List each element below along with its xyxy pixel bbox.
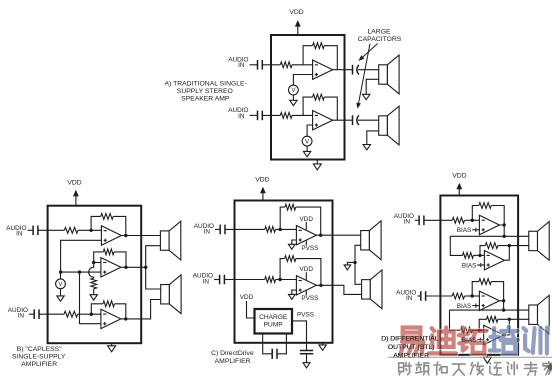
- svg-text:IN: IN: [406, 295, 413, 302]
- circuit C enclosure box: [235, 201, 333, 343]
- wire cap to R D ch2: [426, 295, 453, 297]
- capacitor input coupling B ch2: [34, 309, 39, 319]
- node output junction D ch1: [503, 223, 506, 226]
- resistor inverter feedback D ch2: [487, 316, 498, 322]
- svg-text:C) DirectDrive: C) DirectDrive: [211, 350, 254, 357]
- wire feedback to output D ch2: [491, 282, 503, 301]
- resistor feedback A ch2: [313, 94, 325, 100]
- wire bias rail horizontal B: [61, 271, 101, 273]
- speaker C ch2: [362, 270, 382, 309]
- watermark glyph pei: [490, 327, 518, 353]
- capacitor input coupling D ch1: [419, 216, 424, 226]
- resistor input A ch2: [280, 113, 292, 119]
- node output rail D ch2: [502, 308, 505, 311]
- wire PVSS rail tick C ch2: [305, 291, 307, 296]
- node output junction B ch2: [124, 317, 127, 320]
- wire audio-in lead B ch2: [29, 313, 34, 315]
- wire feedback loop C ch2: [280, 259, 285, 280]
- wire V to bias rail B: [60, 272, 62, 279]
- svg-text:AMPLIFIER: AMPLIFIER: [393, 353, 429, 360]
- svg-text:IN: IN: [203, 278, 210, 285]
- wire cap to R C ch2: [224, 279, 264, 281]
- arrow to large capacitor ch2: [356, 44, 370, 109]
- wire inverter output D ch1: [504, 246, 509, 261]
- node inverter input junction D ch1: [478, 254, 481, 257]
- svg-text:SUPPLY STEREO: SUPPLY STEREO: [177, 88, 233, 95]
- wire feedback loop A ch2: [303, 97, 313, 115]
- speaker B ch2: [161, 275, 181, 314]
- wire VDD rail tick C ch1: [305, 222, 307, 230]
- wire VDD to charge pump: [247, 301, 255, 318]
- svg-text:BIAS: BIAS: [462, 262, 477, 269]
- ground speaker return A ch1: [363, 94, 370, 99]
- wire speaker1 return C: [355, 245, 361, 262]
- op-amp B mid bias buffer: [101, 258, 121, 277]
- wire noninverting to ground C ch1: [292, 240, 297, 244]
- wire feedback loop D ch2: [472, 282, 479, 296]
- svg-text:VDD: VDD: [300, 216, 314, 223]
- ground circuit C box: [319, 343, 326, 351]
- circuit D enclosure box: [440, 196, 518, 355]
- node speaker return junction B: [144, 266, 147, 269]
- capacitor output large A ch2: [353, 115, 359, 125]
- svg-text:IN: IN: [16, 231, 23, 238]
- node inverter input junction D ch2: [478, 329, 481, 332]
- wire R to op-amp C ch2: [276, 279, 297, 281]
- wire noninverting input to V A ch1: [293, 75, 312, 86]
- node input junction C ch2: [278, 278, 281, 281]
- svg-text:CAPACITORS: CAPACITORS: [358, 36, 402, 43]
- capacitor input coupling A ch1: [258, 60, 263, 70]
- svg-text:BIAS: BIAS: [457, 303, 472, 310]
- svg-text:VDD: VDD: [300, 266, 314, 273]
- node output rail D ch1: [503, 235, 506, 238]
- wire R to op-amp D ch1: [465, 219, 480, 221]
- node bias rail tap B: [78, 270, 81, 273]
- arrow to large capacitor ch1: [358, 44, 377, 62]
- wire BIAS input D ch1: [472, 228, 479, 232]
- voltage source V A ch2: [302, 136, 312, 146]
- VDD supply arrow (circuit D): [456, 183, 462, 196]
- wire inverter feedback loop D ch1: [480, 246, 485, 256]
- op-amp B ch1: [101, 226, 121, 245]
- node input junction B ch2: [90, 313, 93, 316]
- wire cap to speaker A ch2: [358, 119, 379, 121]
- speaker B ch1: [160, 221, 180, 260]
- wire op-amp output B ch2: [121, 300, 161, 319]
- wire bias to bottom op-amp B: [80, 272, 101, 324]
- resistor input D ch1: [452, 217, 464, 223]
- VDD supply arrow (circuit B): [73, 190, 79, 206]
- resistor mid to ground B: [91, 278, 97, 289]
- wire audio-in lead A ch2: [250, 114, 258, 116]
- op-amp A ch1: [313, 60, 333, 79]
- wire BIAS input D ch2: [472, 303, 479, 307]
- svg-text:IN: IN: [18, 313, 25, 320]
- node input junction B ch1: [89, 229, 92, 232]
- wire cap to R C ch1: [225, 228, 265, 230]
- svg-text:CHARGE: CHARGE: [259, 314, 288, 321]
- wire op-amp output A ch1: [333, 69, 353, 71]
- resistor inverter input D ch1: [463, 253, 474, 259]
- wire to inverter stage D ch2: [450, 310, 461, 330]
- node mid output junction B: [124, 266, 127, 269]
- svg-text:BIAS: BIAS: [462, 337, 477, 344]
- wire feedback loop C ch1: [280, 207, 285, 229]
- wire feedback to output B ch1: [113, 216, 126, 235]
- resistor mid feedback B: [103, 249, 114, 255]
- resistor feedback B ch2: [103, 301, 115, 307]
- watermark glyph tuo: [459, 328, 486, 353]
- wire audio-in lead C ch2: [214, 279, 220, 281]
- svg-text:AMPLIFIER: AMPLIFIER: [21, 361, 57, 368]
- VDD supply arrow (circuit A): [295, 20, 301, 35]
- svg-text:BIAS: BIAS: [457, 227, 472, 234]
- capacitor input coupling A ch2: [258, 111, 263, 121]
- svg-text:PVSS: PVSS: [301, 295, 318, 302]
- wire cap to R A ch1: [262, 64, 280, 66]
- wire feedback to output C ch1: [296, 207, 321, 235]
- ground PVSS cap: [303, 363, 310, 368]
- node input junction C ch1: [279, 228, 282, 231]
- svg-text:IN: IN: [238, 113, 245, 120]
- capacitor input coupling C ch1: [220, 225, 225, 235]
- node inverter output junction D ch2: [508, 318, 511, 321]
- wire audio-in lead B ch1: [28, 229, 34, 231]
- svg-text:IN: IN: [404, 219, 411, 226]
- wire output rail D ch1: [450, 235, 529, 237]
- wire R to op-amp B ch2: [78, 313, 101, 315]
- wire mid feedback to output B: [114, 252, 126, 267]
- node output junction B ch1: [124, 234, 127, 237]
- speaker A ch1: [379, 55, 399, 94]
- node inverter output junction D ch1: [508, 244, 511, 247]
- watermark tagline glyph he: [434, 362, 447, 375]
- wire R to op-amp B ch1: [78, 229, 101, 231]
- wire audio-in lead D ch1: [415, 219, 419, 221]
- watermark tagline glyph tian: [452, 364, 465, 375]
- op-amp D ch1 inverter: [484, 251, 504, 270]
- svg-text:PVSS: PVSS: [301, 245, 318, 252]
- watermark tagline glyph xian: [470, 362, 483, 374]
- wire audio-in lead A ch1: [250, 64, 258, 66]
- wire audio-in lead D ch2: [417, 295, 420, 297]
- wire cap to speaker A ch1: [358, 69, 379, 71]
- wire R to op-amp C ch1: [276, 228, 297, 230]
- ground under V source A ch1: [290, 95, 297, 106]
- wire R to op-amp D ch2: [465, 295, 480, 297]
- svg-text:PUMP: PUMP: [264, 322, 284, 329]
- svg-text:VDD: VDD: [255, 176, 269, 183]
- resistor feedback C ch2: [285, 256, 296, 262]
- voltage source V B: [56, 279, 66, 289]
- resistor input B ch1: [64, 227, 78, 233]
- watermark tagline glyph she2: [489, 362, 501, 374]
- wire noninverting to ground C ch2: [292, 290, 297, 294]
- node output junction C ch1: [319, 234, 322, 237]
- watermark glyph di: [429, 328, 456, 354]
- svg-text:PVSS: PVSS: [297, 312, 314, 319]
- op-amp D ch2: [479, 291, 499, 310]
- resistor inverter input D ch2: [460, 327, 472, 333]
- ground speaker return A ch2: [363, 145, 370, 150]
- wire hop over bias rail B: [89, 263, 94, 279]
- svg-text:LARGE: LARGE: [367, 29, 391, 36]
- ground noninverting C ch1: [289, 244, 296, 249]
- wire common to ground C: [347, 262, 355, 265]
- node output junction D ch2: [502, 299, 505, 302]
- wire cap to R A ch2: [262, 114, 280, 116]
- op-amp B ch2: [101, 309, 121, 328]
- wire R to op-amp A ch1: [292, 64, 313, 66]
- wire op-amp output A ch2: [333, 119, 353, 121]
- watermark tagline glyph she: [399, 362, 412, 374]
- resistor input D ch2: [452, 293, 464, 299]
- resistor inverter feedback D ch1: [485, 243, 498, 249]
- wire output down D ch1: [499, 225, 504, 236]
- speaker A ch2: [379, 106, 399, 145]
- wire to inverter stage D ch1: [450, 236, 462, 255]
- wire output to speaker C ch2: [316, 285, 361, 294]
- node bias rail left B: [59, 270, 62, 273]
- wire output rail D ch2: [450, 309, 529, 311]
- svg-text:VDD: VDD: [240, 294, 254, 301]
- watermark tagline glyph ji: [507, 362, 517, 375]
- circuit B enclosure box: [48, 206, 142, 344]
- node input junction D ch2: [471, 294, 474, 297]
- ground under V source A ch2: [303, 146, 310, 157]
- watermark tagline glyph zhuan: [524, 362, 537, 375]
- resistor feedback D ch1: [479, 203, 491, 209]
- svg-text:D) DIFFERENTIAL: D) DIFFERENTIAL: [381, 336, 439, 343]
- ground noninverting C ch2: [289, 294, 296, 299]
- wire mid minus input B: [94, 262, 101, 264]
- separator line bottom right: [388, 356, 552, 358]
- svg-text:IN: IN: [238, 62, 245, 69]
- wire cap to R B ch2: [39, 313, 64, 315]
- wire feedback to output A ch1: [324, 46, 337, 70]
- charge pump box: [255, 309, 293, 334]
- wire noninverting input to V A ch2: [307, 125, 313, 136]
- watermark tagline glyph pin: [416, 362, 429, 375]
- wire BIAS input D ch2 inverter: [477, 338, 484, 342]
- wire feedback loop D ch1: [472, 206, 479, 221]
- wire speaker return A ch1: [366, 79, 379, 94]
- op-amp C ch2: [296, 276, 316, 295]
- circuit A enclosure box: [271, 35, 345, 160]
- VDD supply arrow (circuit C): [260, 187, 266, 201]
- svg-text:VDD: VDD: [67, 179, 81, 186]
- wire flying cap right leg: [277, 334, 286, 354]
- wire feedback loop B ch1: [91, 216, 101, 230]
- svg-text:OUTPUT (BTL): OUTPUT (BTL): [388, 344, 435, 351]
- resistor input A ch1: [280, 62, 292, 68]
- wire noninverting input B ch1: [61, 240, 102, 272]
- wire mid feedback loop B: [94, 252, 104, 263]
- wire R to inverter D ch2: [473, 329, 484, 331]
- wire output to speaker C ch1: [316, 234, 360, 236]
- wire feedback to output A ch2: [324, 97, 337, 120]
- wire mid output B: [121, 266, 146, 268]
- resistor feedback B ch1: [101, 214, 114, 220]
- capacitor input coupling D ch2: [421, 291, 426, 301]
- voltage source V A ch1: [289, 85, 299, 95]
- svg-text:B) "CAPLESS": B) "CAPLESS": [17, 346, 62, 353]
- svg-text:VDD: VDD: [289, 9, 303, 16]
- speaker C ch1: [361, 221, 381, 260]
- watermark tagline glyph jia: [543, 362, 552, 375]
- node mid minus junction B: [92, 261, 95, 264]
- wire flying cap left leg: [263, 334, 273, 354]
- node input junction D ch1: [471, 219, 474, 222]
- speaker D ch2: [529, 295, 549, 334]
- watermark glyph yi: [400, 328, 423, 355]
- capacitor input coupling C ch2: [220, 275, 225, 285]
- wire PVSS output: [292, 321, 307, 351]
- wire op-amp output to speaker B ch1: [121, 235, 160, 237]
- wire R to op-amp A ch2: [292, 114, 313, 116]
- wire PVSS cap to ground: [306, 354, 308, 363]
- wire feedback to output C ch2: [296, 259, 321, 286]
- wire inverter feedback rail D ch2: [498, 318, 529, 320]
- wire VDD rail tick C ch2: [305, 272, 307, 280]
- ground mid resistor B: [90, 289, 97, 300]
- wire output down D ch2: [499, 301, 503, 310]
- watermark glyph xun: [523, 328, 547, 354]
- resistor feedback C ch1: [285, 204, 296, 210]
- wire inverter feedback rail D ch1: [498, 245, 529, 247]
- speaker D ch1: [529, 222, 549, 261]
- wire feedback to output D ch1: [491, 206, 504, 226]
- svg-text:VDD: VDD: [452, 172, 466, 179]
- wire cap to R B ch1: [38, 229, 64, 231]
- node output junction C ch2: [319, 284, 322, 287]
- wire common to speaker2 C: [355, 262, 362, 284]
- resistor input B ch2: [64, 311, 78, 317]
- resistor input C ch2: [265, 277, 276, 283]
- ground circuit D box: [483, 355, 491, 363]
- svg-text:SINGLE-SUPPLY: SINGLE-SUPPLY: [12, 354, 66, 361]
- svg-text:IN: IN: [204, 229, 211, 236]
- wire feedback loop B ch2: [91, 304, 103, 314]
- op-amp D ch1: [479, 215, 499, 234]
- resistor input C ch1: [265, 227, 276, 233]
- wire R to inverter D ch1: [473, 254, 484, 256]
- svg-text:A) TRADITIONAL SINGLE-: A) TRADITIONAL SINGLE-: [165, 81, 247, 88]
- capacitor PVSS reservoir: [300, 351, 313, 354]
- ground circuit A box: [313, 160, 321, 170]
- wire speaker return A ch2: [367, 131, 379, 145]
- svg-text:SPEAKER AMP: SPEAKER AMP: [181, 96, 230, 103]
- op-amp D ch2 inverter: [484, 325, 504, 344]
- wire inverter output D ch2: [504, 319, 510, 335]
- op-amp C ch1: [296, 226, 316, 245]
- svg-text:AMPLIFIER: AMPLIFIER: [215, 358, 251, 365]
- capacitor output large A ch1: [353, 65, 359, 75]
- wire inverter feedback loop D ch2: [479, 319, 486, 330]
- wire speaker1 return B: [146, 246, 161, 289]
- capacitor flying (charge pump): [272, 349, 277, 359]
- ground under V source B: [57, 289, 64, 302]
- wire feedback to output B ch2: [115, 304, 126, 319]
- capacitor input coupling B ch1: [33, 226, 38, 236]
- resistor feedback D ch2: [479, 279, 491, 285]
- wire cap to R D ch1: [424, 219, 452, 221]
- wire BIAS input D ch1 inverter: [477, 263, 484, 267]
- wire PVSS rail tick C ch1: [305, 241, 307, 246]
- ground circuit B box: [108, 343, 116, 352]
- watermark tagline diamond: [547, 363, 552, 371]
- wire feedback loop A ch1: [303, 46, 313, 65]
- resistor feedback A ch1: [313, 43, 325, 49]
- wire audio-in lead C ch1: [215, 228, 220, 230]
- op-amp A ch2: [313, 111, 333, 130]
- ground common return C: [344, 265, 351, 270]
- node common return C: [353, 261, 356, 264]
